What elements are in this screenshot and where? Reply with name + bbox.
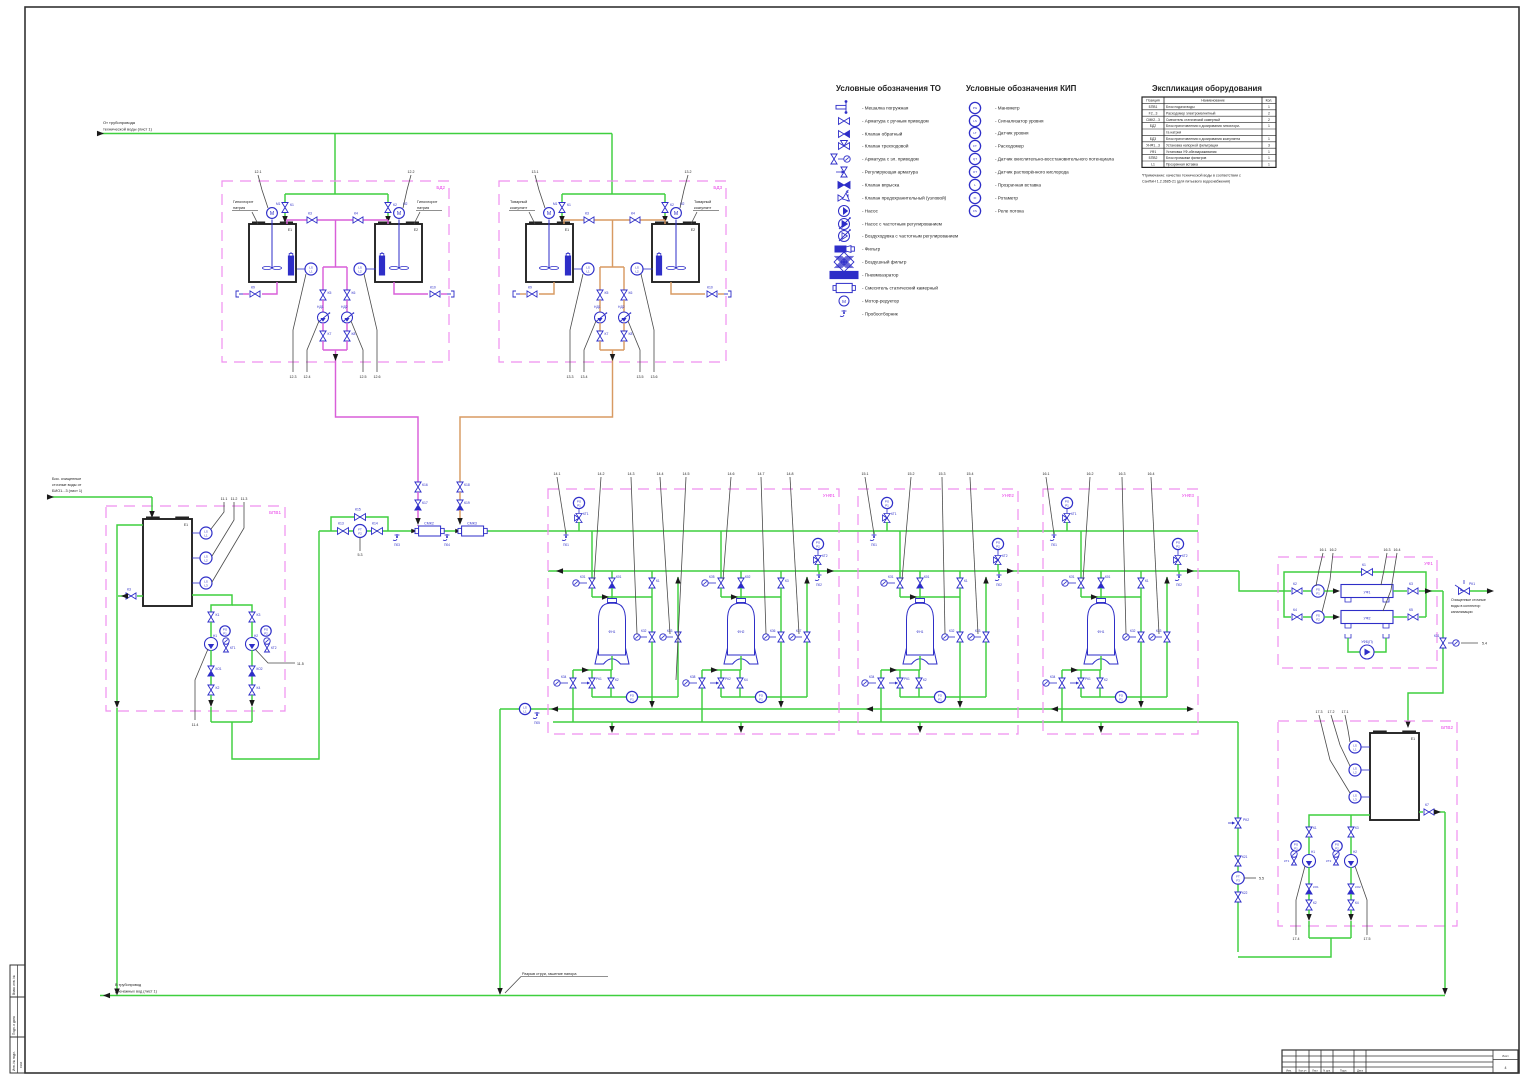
svg-text:КЗ1: КЗ1 [580,575,586,579]
svg-text:F1: F1 [1316,591,1320,595]
svg-text:Блок подачи воды: Блок подачи воды [1166,105,1195,109]
svg-text:К3: К3 [257,613,261,617]
svg-text:N док.: N док. [1323,1069,1331,1073]
svg-text:14.4: 14.4 [657,472,664,476]
svg-text:Изм.: Изм. [1286,1069,1292,1073]
svg-text:1: 1 [1268,105,1270,109]
svg-text:К13: К13 [338,522,344,526]
block BPV2 boundary [1278,721,1457,926]
svg-text:К15: К15 [355,508,361,512]
svg-text:- Ротаметр: - Ротаметр [995,196,1018,201]
svg-text:К34: К34 [1050,675,1056,679]
svg-text:P1: P1 [223,631,227,635]
legend symbol flt [835,246,846,252]
block UNF3 boundary [1043,489,1198,734]
svg-text:11.2: 11.2 [231,497,238,501]
pressure gauge PG P2 [1172,538,1183,549]
svg-text:17.1: 17.1 [1342,710,1349,714]
sample point P02 [818,571,820,574]
svg-text:П02: П02 [1176,583,1182,587]
svg-text:УНФ1: УНФ1 [823,493,836,498]
svg-text:- Арматура с ручным приводом: - Арматура с ручным приводом [862,119,929,124]
svg-text:P2: P2 [1335,846,1339,850]
svg-text:КТ2: КТ2 [822,554,828,558]
flowmeter FT F3 [1232,872,1244,884]
dosing pump ND2 БД3 [619,312,630,323]
svg-text:ФН1: ФН1 [917,630,924,634]
svg-text:БПВ1: БПВ1 [1149,105,1158,109]
pressure gauge PG P1 [573,497,584,508]
svg-text:16.4: 16.4 [1148,472,1155,476]
valve K2 БД2 [385,203,391,213]
svg-text:БД3: БД3 [1150,137,1157,141]
wire feed header through filter blocks [548,530,1198,532]
svg-text:4: 4 [1505,1066,1507,1070]
UV unit UF1 [1341,585,1393,598]
legend KIP FT [969,140,980,151]
svg-text:КТ1: КТ1 [583,512,589,516]
svg-text:Е1: Е1 [1411,737,1415,741]
svg-text:P2: P2 [996,544,1000,548]
svg-text:Блок приготовления и дозирован: Блок приготовления и дозирования коагуля… [1166,137,1240,141]
svg-text:- Клапан предохранительный (уз: - Клапан предохранительный (узловой) [862,195,947,201]
valve K5 БД3 [597,290,603,300]
valve К33 [1166,577,1168,632]
level switch LS L1 БД2 [297,268,305,270]
valve K18 [457,482,463,492]
pump N1 BPV1 [205,638,218,651]
svg-text:L1: L1 [1151,163,1155,167]
svg-text:Взам. инв. №: Взам. инв. № [12,975,16,995]
valve K6 БД2 [344,290,350,300]
svg-text:11.4: 11.4 [192,723,199,727]
svg-text:та натрия: та натрия [1166,131,1181,135]
svg-text:F2...3: F2...3 [1149,111,1158,115]
svg-text:- Датчик окислительно-восстано: - Датчик окислительно-восстановительного… [995,157,1114,162]
legend symbol smp [843,310,845,314]
svg-text:Е2: Е2 [691,228,695,232]
wire feed riser ФН1 [899,531,901,578]
svg-text:К21: К21 [1242,855,1248,859]
svg-text:12.1: 12.1 [255,170,262,174]
legend symbol v3 [839,143,850,150]
svg-text:УНФ3: УНФ3 [1182,493,1195,498]
svg-text:FI: FI [974,196,977,200]
svg-text:1: 1 [1268,150,1270,154]
flowmeter FT F2 [354,525,367,538]
svg-text:КТ1: КТ1 [891,512,897,516]
svg-text:РК1: РК1 [1469,582,1475,586]
svg-text:16.3: 16.3 [1119,472,1126,476]
svg-text:5.4: 5.4 [1482,642,1487,646]
valve К33 [985,577,987,632]
svg-text:К6: К6 [629,291,633,295]
svg-text:LT: LT [973,131,976,135]
svg-text:К5: К5 [605,291,609,295]
tank E2 БД3 [652,224,699,282]
UV flush pump UFB [1348,638,1360,652]
svg-text:К1: К1 [1145,579,1149,583]
wire bio inlet [50,496,152,498]
svg-text:К1: К1 [216,613,220,617]
sample point P03 [396,534,398,538]
valve KT1 BPV2 [1292,857,1297,865]
wire feed riser ФН2 [720,531,722,578]
control valve РК1 [899,670,901,678]
svg-text:Био. очищенные: Био. очищенные [52,477,81,481]
wire drop to drain header [780,697,782,704]
level sensors BPV2 [1361,746,1370,748]
svg-text:К3: К3 [785,579,789,583]
svg-text:К18: К18 [464,483,470,487]
svg-text:F3: F3 [1236,878,1240,882]
svg-text:К34: К34 [869,675,875,679]
svg-text:3: 3 [1268,143,1270,147]
wire drop to BD3 [611,134,613,195]
level probe tank E1 БД3 [567,252,569,256]
svg-text:Расходомер электромагнитный: Расходомер электромагнитный [1166,111,1216,115]
svg-text:15.4: 15.4 [967,472,974,476]
valve К34 [572,670,574,678]
svg-text:К1: К1 [656,579,660,583]
pressure gauge PG P1 [1061,497,1072,508]
svg-text:16.2: 16.2 [1330,548,1337,552]
svg-text:F2: F2 [1316,617,1320,621]
wire backwash supply header [553,721,1238,723]
valve KT2 BPV1 [265,644,270,652]
valve КЗ1 [897,578,903,588]
svg-text:КТ2: КТ2 [271,646,277,650]
legend symbol pmf [839,219,850,230]
svg-text:КО2: КО2 [1355,885,1361,889]
svg-text:СМК2: СМК2 [424,522,434,526]
valve K31 motorized [1440,638,1446,648]
svg-text:14.2: 14.2 [598,472,605,476]
svg-text:К7: К7 [1425,803,1429,807]
valve KT1 [575,514,583,523]
svg-text:В трубопровод: В трубопровод [115,983,142,987]
sample point П01 [873,531,875,534]
svg-text:- Регулирующая арматура: - Регулирующая арматура [862,170,918,175]
svg-text:13.1: 13.1 [532,170,539,174]
tank drain K9 БД3 [539,282,554,294]
wire BPV2 outlet riser [1444,812,1446,991]
svg-text:F1: F1 [630,697,634,701]
svg-text:- Пробоотборник: - Пробоотборник [862,312,899,317]
svg-text:К2: К2 [1313,901,1317,905]
flow glass FG F1 [1081,696,1167,698]
svg-text:14.5: 14.5 [683,472,690,476]
svg-text:- Клапан обратный: - Клапан обратный [862,131,903,137]
wire block bottom drain [1100,722,1102,729]
svg-text:- Расходомер: - Расходомер [995,144,1024,149]
svg-text:К9: К9 [528,286,532,290]
svg-text:L2: L2 [635,269,639,273]
UV drain stubs [1345,598,1351,602]
svg-text:УФ1: УФ1 [1364,591,1371,595]
valve K2 BPV2 [1306,900,1312,910]
sample point П01 [565,531,567,534]
legend symbol afl [834,252,854,272]
filter vessel ФН1 [916,599,925,603]
valve KT1 BPV1 [224,644,229,652]
svg-text:Е1: Е1 [288,228,292,232]
wire dosing discharge БД2 [322,341,324,350]
svg-text:17.3: 17.3 [1316,710,1323,714]
valve K4 UV [1292,614,1302,620]
valve K13 [338,528,349,535]
svg-text:БПВ1: БПВ1 [269,510,281,515]
svg-text:П02: П02 [996,583,1002,587]
svg-text:К6: К6 [352,291,356,295]
legend symbol saf [838,195,848,201]
svg-text:К3: К3 [308,212,312,216]
svg-text:13.6: 13.6 [651,375,658,379]
backwash column [1237,816,1239,952]
wire drop to drain header [959,697,961,704]
svg-text:Е1: Е1 [184,523,188,527]
valve KT2 [1174,556,1182,565]
svg-text:К32: К32 [949,629,955,633]
svg-text:УФ1: УФ1 [1424,561,1433,566]
wire feed riser ФН1 [591,531,593,578]
svg-text:М1: М1 [553,202,558,206]
pump N1 BPV2 [1303,855,1316,868]
svg-text:Позиция: Позиция [1146,99,1160,103]
svg-text:КТ2: КТ2 [1182,554,1188,558]
valve KT2 [814,556,822,565]
sample point П01 [1053,531,1055,534]
svg-text:К2: К2 [393,203,397,207]
svg-text:14.1: 14.1 [554,472,561,476]
check valve К01 [611,571,613,578]
svg-text:Е2: Е2 [414,228,418,232]
bypass valve K1 UV [1284,572,1426,617]
svg-text:натрия: натрия [233,206,245,210]
valve К38 [701,670,703,678]
flow switch FS F2 [1303,616,1311,618]
block UNF1 boundary [548,489,839,734]
svg-text:L1: L1 [204,533,208,537]
wire vessel top manifold [592,596,652,598]
svg-text:15.3: 15.3 [939,472,946,476]
pump N2 BPV1 [246,638,259,651]
flow glass FG F1 [721,696,807,698]
svg-text:Разрыв струи, гашение напора: Разрыв струи, гашение напора [522,972,577,976]
svg-text:- Арматура с эл. приводом: - Арматура с эл. приводом [862,157,919,162]
svg-text:P2: P2 [1176,544,1180,548]
valve К32 [649,632,655,642]
valve K5 UV [1393,616,1407,618]
static mixer SMK3 [455,529,461,533]
svg-text:БИО1...3 (лист 1): БИО1...3 (лист 1) [52,489,83,493]
valve К4 [739,670,741,678]
valve K1 BPV1 [208,612,214,622]
filter vessel ФН1 [1097,599,1106,603]
svg-text:К9: К9 [251,286,255,290]
svg-text:НД2: НД2 [618,305,625,309]
svg-text:К01: К01 [616,575,622,579]
wire BD3 dosing line to SMK3 [460,362,613,482]
wire vessel top manifold [721,596,781,598]
pressure gauge PG P2 [812,538,823,549]
valve K2 BPV1 [208,685,214,695]
svg-text:L1: L1 [586,269,590,273]
svg-text:П03: П03 [394,543,400,547]
valve К33 [677,577,679,632]
svg-text:К14: К14 [372,522,378,526]
valve K7 БД2 [320,331,326,341]
dosing pump ND1 БД3 [595,312,606,323]
svg-text:К36: К36 [770,629,776,633]
legend KIP FI [969,192,980,203]
svg-text:Очищенные сточные: Очищенные сточные [1451,598,1486,602]
valve KT1 [1063,514,1071,523]
svg-text:К7: К7 [605,332,609,336]
svg-text:КО1: КО1 [1313,885,1319,889]
svg-text:РК2: РК2 [1243,818,1249,822]
legend KIP PG [969,102,980,113]
svg-text:13.4: 13.4 [581,375,588,379]
svg-text:К1: К1 [567,203,571,207]
valve К1 [651,571,653,578]
svg-text:F1: F1 [759,697,763,701]
valve K3 BPV1 [137,595,143,597]
svg-text:M: M [547,211,551,217]
wire green fill manifold БД3 [562,193,665,195]
wire tank outlet to pumps [192,595,232,612]
svg-text:- Клапан трехходовой: - Клапан трехходовой [862,143,909,149]
block БД2 boundary [222,181,449,362]
svg-text:FT: FT [973,144,977,148]
valve K4 BPV2 [1348,900,1354,910]
svg-text:P1: P1 [1294,846,1298,850]
svg-text:К3: К3 [1355,826,1359,830]
left title strip [10,965,25,1073]
wire drain riser to bottom [499,709,501,991]
svg-text:F1: F1 [938,697,942,701]
svg-text:13.3: 13.3 [567,375,574,379]
svg-text:натрия: натрия [417,206,429,210]
tank drain K9 БД2 [262,282,277,294]
svg-text:16.2: 16.2 [1087,472,1094,476]
check valve К02 [740,571,742,578]
legend KIP FS [969,205,980,216]
svg-text:К02: К02 [745,575,751,579]
svg-text:- Реле потока: - Реле потока [995,209,1024,214]
valve K4 BPV1 [249,685,255,695]
svg-text:17.5: 17.5 [1364,937,1371,941]
pressure gauge PG P2 BPV2 [1332,841,1342,851]
svg-text:- Пневмоаэратор: - Пневмоаэратор [862,273,899,278]
svg-text:14.3: 14.3 [628,472,635,476]
check valve KO1 BPV1 [208,666,214,671]
wire feed riser ФН1 [1080,531,1082,578]
svg-text:К8: К8 [352,332,356,336]
svg-text:L2: L2 [204,558,208,562]
svg-text:Условные обозначения КИП: Условные обозначения КИП [966,84,1077,93]
mixer M1 БД3 [544,208,555,219]
wire BPV2 discharge [1309,937,1351,939]
level probe tank E1 БД2 [290,252,292,256]
svg-text:12.5: 12.5 [360,375,367,379]
svg-text:К8: К8 [629,332,633,336]
legend symbol mr [839,296,849,306]
valve K3 UV [1393,590,1407,592]
svg-text:сточные воды от: сточные воды от [52,483,82,487]
valve КЗ1 [1078,578,1084,588]
level probe tank E2 БД3 [658,252,660,256]
svg-text:От трубопровода: От трубопровода [103,120,136,125]
svg-text:К5: К5 [328,291,332,295]
wire block bottom drain [611,722,613,729]
svg-text:Инв. № подл.: Инв. № подл. [12,1051,16,1071]
svg-text:- Воздуходувка с частотным рег: - Воздуходувка с частотным регулирование… [862,234,958,239]
valve КЗ5 [718,578,724,588]
svg-text:1: 1 [1268,137,1270,141]
svg-text:Смеситель статический камерный: Смеситель статический камерный [1166,118,1220,122]
wire to BPV2 [1408,591,1443,724]
valve К34 [1061,670,1063,678]
wire drop to drain header [651,697,653,704]
svg-text:БПВ2: БПВ2 [1441,725,1453,730]
valve К2 [1099,670,1101,678]
legend KIP LT [969,127,980,138]
valve К1 [959,571,961,578]
valve К32 [957,632,963,642]
wire tech water header [100,133,612,135]
svg-text:К34: К34 [561,675,567,679]
wire UV inlet manifold [1284,591,1291,617]
svg-text:К2: К2 [1293,582,1297,586]
filter vessel ФН1 [608,599,617,603]
svg-text:14.6: 14.6 [728,472,735,476]
legend symbol reg [841,167,847,177]
valve K21 [1235,856,1241,866]
svg-text:коагулянт: коагулянт [510,206,527,210]
svg-text:К01: К01 [924,575,930,579]
svg-text:1994: 1994 [19,1061,23,1068]
svg-text:1: 1 [1268,124,1270,128]
svg-text:Условные обозначения ТО: Условные обозначения ТО [836,84,941,93]
svg-text:ФН1: ФН1 [1098,630,1105,634]
wire vessel bottom manifold [1100,656,1102,670]
svg-text:КТ1: КТ1 [230,646,236,650]
svg-text:К2: К2 [1104,678,1108,682]
valve KT2 BPV2 [1334,857,1339,865]
legend KIP LS [969,115,980,126]
svg-text:воды в коллектор: воды в коллектор [1451,604,1480,608]
level switch LS L2 БД2 [365,268,376,270]
dosing pump ND2 БД2 [342,312,353,323]
mixer M2 БД3 [671,208,682,219]
svg-text:Блок приготовления и дозирован: Блок приготовления и дозирования гипохло… [1166,124,1240,128]
svg-text:Подп.: Подп. [1340,1069,1347,1073]
svg-text:РК1: РК1 [1085,677,1091,681]
svg-text:Е1: Е1 [565,228,569,232]
svg-text:КО1: КО1 [216,667,222,671]
control valve РК1 [1080,670,1082,678]
level switch LS L2 БД3 [642,268,653,270]
svg-text:П05: П05 [534,721,540,725]
svg-text:К17: К17 [422,501,428,505]
mixer M2 БД2 [394,208,405,219]
svg-text:- Сигнализатор уровня: - Сигнализатор уровня [995,119,1044,124]
wire vessel top manifold [1081,596,1141,598]
valve KT1 [883,514,891,523]
legend symbol mv [831,154,837,164]
svg-text:К10: К10 [430,286,436,290]
